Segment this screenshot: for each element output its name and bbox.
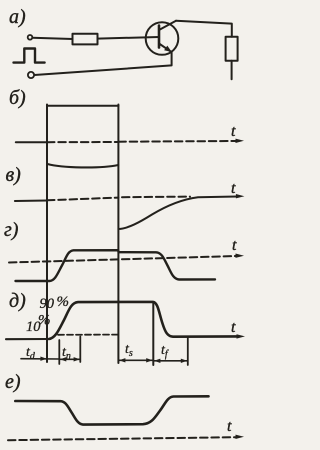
tick fall start — [152, 303, 154, 365]
axis b arrowhead — [236, 139, 245, 143]
dim t_n — [61, 358, 80, 360]
svg-text:%: % — [38, 313, 51, 329]
dim t_s — [119, 359, 152, 361]
svg-text:t: t — [231, 180, 236, 197]
axis b solid — [16, 141, 47, 143]
axis g dashed — [9, 256, 237, 263]
long vertical left — [46, 105, 48, 363]
svg-text:г): г) — [4, 219, 19, 241]
tick 90 percent point — [79, 337, 81, 363]
svg-text:в): в) — [6, 164, 22, 186]
wire — [231, 61, 233, 79]
input terminal top — [28, 35, 33, 40]
wire — [98, 37, 160, 39]
axis b dashed — [47, 141, 118, 143]
pulse symbol — [14, 49, 45, 63]
svg-text:t: t — [232, 237, 237, 254]
svg-text:а): а) — [9, 6, 26, 28]
curve g — [16, 250, 216, 281]
tick fall end — [187, 338, 189, 365]
dim t_d — [21, 358, 60, 360]
transistor base bar — [158, 26, 161, 48]
transistor Q1 — [146, 22, 179, 55]
curve d — [49, 302, 238, 339]
svg-text:t: t — [227, 418, 232, 435]
long vertical right — [117, 105, 119, 364]
input terminal bottom — [28, 72, 34, 78]
transistor emitter lead — [159, 44, 171, 52]
axis v solid — [15, 200, 47, 203]
axis d arrowhead — [237, 334, 246, 338]
sag curve — [48, 164, 119, 167]
axis d solid left — [6, 338, 49, 340]
axis v dashed right — [122, 196, 190, 199]
axis v dashed mid — [47, 198, 118, 201]
wire — [32, 38, 72, 39]
axis e dashed — [8, 437, 237, 440]
emitter arrowhead — [164, 46, 172, 52]
axis e arrowhead — [236, 435, 245, 439]
dim t_f — [154, 360, 187, 362]
svg-text:б): б) — [9, 87, 26, 109]
svg-text:90: 90 — [40, 296, 55, 312]
wire collector — [176, 21, 232, 37]
svg-text:е): е) — [5, 371, 21, 393]
axis b dashed right — [118, 140, 237, 143]
svg-text:t: t — [231, 123, 236, 140]
10 percent dashed — [58, 334, 118, 336]
pulse top — [47, 105, 118, 107]
tick 10 percent point — [58, 340, 60, 364]
axis g arrowhead — [236, 254, 245, 258]
resistor R1 — [73, 34, 98, 45]
transistor collector lead — [159, 21, 176, 30]
wire emitter — [34, 52, 171, 76]
svg-text:%: % — [57, 294, 70, 310]
svg-text:д): д) — [9, 290, 26, 312]
resistor R2 — [226, 37, 238, 61]
curve e — [15, 396, 208, 424]
axis v arrowhead — [236, 194, 245, 198]
svg-text:t: t — [231, 319, 236, 336]
undershoot curve — [118, 197, 237, 230]
